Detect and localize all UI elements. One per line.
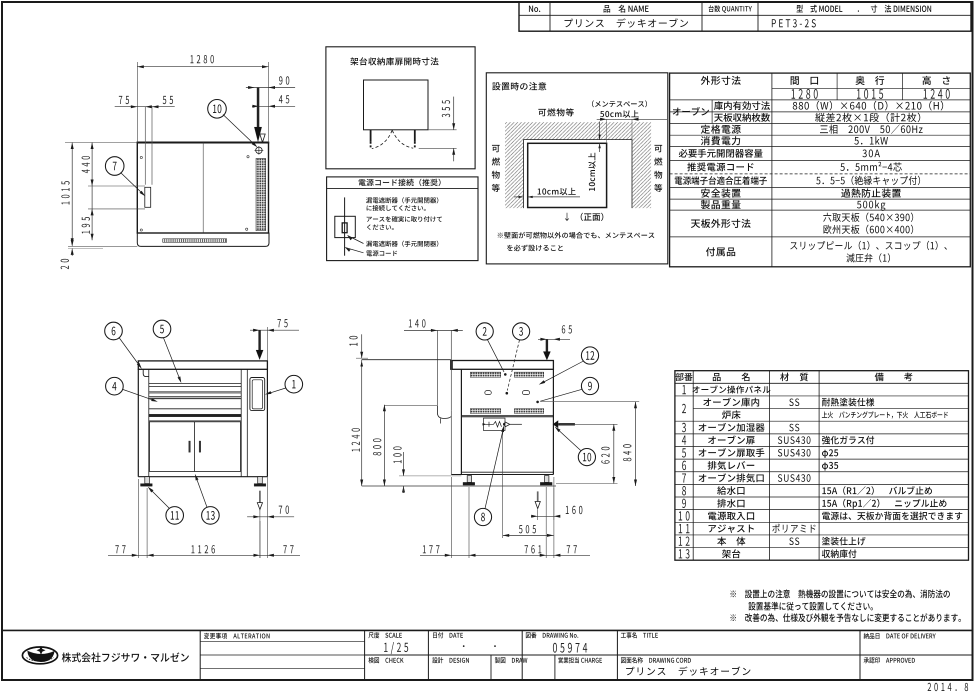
date cell bbox=[433, 632, 463, 638]
front view left foot bbox=[145, 477, 150, 484]
dim 65 top bbox=[538, 338, 570, 340]
spec table bbox=[670, 73, 971, 267]
storage door swing arcs bbox=[372, 130, 392, 148]
plan black power arrow (top inlet) bbox=[257, 88, 260, 128]
wall hatch band (combustibles) bbox=[505, 122, 651, 208]
dim 20 (plan bottom left) bbox=[68, 245, 137, 247]
breaker cord vertical line bbox=[344, 197, 346, 255]
side view top plate bbox=[451, 361, 554, 370]
scale cell bbox=[368, 632, 401, 638]
balloon 9 with leader bbox=[581, 377, 598, 394]
stand storage door-open dimension box bbox=[326, 47, 475, 169]
company logo ellipse bbox=[22, 647, 57, 664]
balloon 5 with leader bbox=[153, 320, 171, 338]
balloon 10 (plan) bbox=[208, 100, 227, 119]
front dim 75 top right bbox=[266, 327, 268, 361]
front view top plate bbox=[138, 361, 267, 369]
dim 160 bbox=[537, 510, 539, 521]
dim 1240 left bbox=[361, 360, 363, 486]
drawing number cell bbox=[526, 632, 578, 638]
caution note bbox=[498, 232, 655, 239]
balloon 3 with leader bbox=[513, 323, 530, 340]
installation caution box bbox=[486, 73, 668, 264]
water inlet height reference line bbox=[384, 404, 437, 406]
side view right foot bbox=[545, 476, 549, 483]
front bottom dims 77 1126 77 bbox=[137, 479, 139, 558]
plan view exhaust lever lines bbox=[144, 107, 146, 185]
balloon 12 with leader bbox=[581, 347, 598, 364]
balloon 13 with leader bbox=[202, 507, 220, 525]
front view exhaust lever hook (part 6) bbox=[143, 369, 148, 376]
side view oval slots bbox=[485, 391, 492, 395]
storage box legs bbox=[370, 130, 372, 142]
dim 800 bbox=[383, 405, 385, 486]
floor line bbox=[362, 485, 556, 487]
power cord box text bbox=[366, 197, 438, 203]
dim 620 right bbox=[560, 423, 618, 425]
header table (top right) bbox=[519, 2, 971, 31]
power cord connection box bbox=[327, 177, 478, 261]
logo rim dashes bbox=[27, 658, 54, 662]
parts list table bbox=[675, 371, 969, 561]
front view control panel (part 1) bbox=[250, 378, 265, 411]
front view cabinet top line bbox=[149, 420, 241, 422]
dim 840 right bbox=[541, 401, 639, 403]
dim 90 (plan right) bbox=[246, 87, 295, 89]
front view deck bottom dark band bbox=[149, 414, 241, 416]
dim 75 55 (plan left) bbox=[115, 106, 175, 108]
rear duct lines bbox=[436, 330, 438, 406]
plan view oven body bbox=[137, 143, 268, 234]
front drain white arrow bbox=[259, 491, 261, 503]
plan view center divider bbox=[202, 143, 204, 234]
balloon 10 side with leader bbox=[578, 449, 595, 466]
balloon 11 with leader bbox=[166, 507, 184, 525]
balloon 6 with leader bbox=[105, 322, 123, 340]
front view inner frame lines bbox=[148, 369, 150, 476]
leader cord label bbox=[345, 248, 350, 252]
dim 1015 (plan left height) bbox=[65, 142, 137, 144]
caution texts bbox=[538, 108, 573, 116]
dim 10 top left bbox=[356, 357, 368, 359]
spec outer-dims subcolumns bbox=[836, 73, 838, 100]
plan view bottom tray bbox=[137, 233, 269, 246]
plan view corner screws bbox=[140, 156, 142, 158]
leader breaker label bbox=[348, 236, 353, 241]
side view vent grilles row2 bbox=[470, 409, 500, 414]
balloon 2 with leader bbox=[476, 323, 493, 340]
front direction arrow bbox=[565, 213, 569, 221]
oven footprint rect bbox=[528, 143, 607, 207]
wall inner outline bbox=[524, 140, 633, 209]
front dim 70 bottom right bbox=[259, 510, 261, 559]
alteration column rows bbox=[200, 640, 364, 642]
right combustibles vertical bbox=[654, 145, 662, 152]
title block bbox=[2, 629, 973, 631]
dim 100 bbox=[403, 452, 405, 476]
dim 355 (door open depth) bbox=[428, 129, 457, 131]
caution notes below parts table bbox=[730, 590, 949, 599]
balloon 1 with leader bbox=[285, 375, 303, 393]
cabinet door handles bbox=[189, 441, 191, 452]
50cm dim line bbox=[597, 118, 667, 120]
plan view tray vent slot bbox=[163, 239, 227, 243]
spec oven sub divider bbox=[711, 100, 713, 124]
dim 1280 (plan width) bbox=[136, 62, 138, 143]
plan view top edge thick bbox=[137, 142, 270, 144]
date 2014.8 bbox=[928, 683, 969, 691]
balloon 7 (plan) bbox=[105, 157, 124, 176]
front anchor arrow black bbox=[258, 330, 260, 350]
side view vent grilles row1 bbox=[470, 372, 500, 377]
side drain white arrow bbox=[537, 491, 539, 501]
left combustibles vertical bbox=[492, 145, 500, 152]
side top black arrow (top power inlet) bbox=[546, 339, 548, 351]
side view left foot bbox=[467, 476, 471, 483]
top reference line bbox=[362, 359, 451, 361]
side view body outline bbox=[460, 369, 462, 474]
front view cabinet doors bbox=[150, 422, 241, 472]
plan view power knockout circle bbox=[256, 147, 262, 153]
plan view right vent strip bbox=[256, 158, 266, 230]
water inlet J pipe bbox=[437, 406, 451, 419]
title cell bbox=[621, 632, 658, 638]
dim 45 (plan right) bbox=[252, 105, 295, 107]
breaker box symbol bbox=[335, 216, 356, 237]
logo star bbox=[37, 646, 46, 655]
plan white arrow bbox=[260, 134, 265, 142]
front view right foot bbox=[258, 477, 263, 484]
side view stand bottom lines bbox=[461, 471, 553, 473]
dim 440 195 (plan left inner) bbox=[91, 143, 93, 241]
front view oven deck lines bbox=[149, 383, 241, 385]
10cm horizontal dim bbox=[538, 188, 576, 196]
balloon 8 with leader bbox=[474, 508, 491, 525]
logo bowl shape bbox=[27, 651, 54, 662]
water inlet open arrow and line bbox=[505, 422, 510, 427]
side view oven/stand divider bbox=[461, 415, 553, 417]
balloon 4 with leader bbox=[106, 377, 124, 395]
water inlet valve symbol (part 8) bbox=[484, 418, 506, 430]
delivery cell bbox=[864, 633, 936, 639]
dim 140 top left bbox=[404, 329, 463, 331]
storage box plan rect bbox=[364, 80, 429, 130]
10cm vertical dim bbox=[599, 122, 601, 140]
dim 505 bbox=[502, 432, 504, 538]
company name bbox=[62, 652, 189, 662]
side power inlet black arrow (rear) bbox=[558, 423, 575, 425]
front view body outline bbox=[137, 369, 139, 476]
side bottom dims 177 761 77 bbox=[468, 487, 470, 558]
plan view side handle rect (part 7) bbox=[145, 187, 151, 207]
